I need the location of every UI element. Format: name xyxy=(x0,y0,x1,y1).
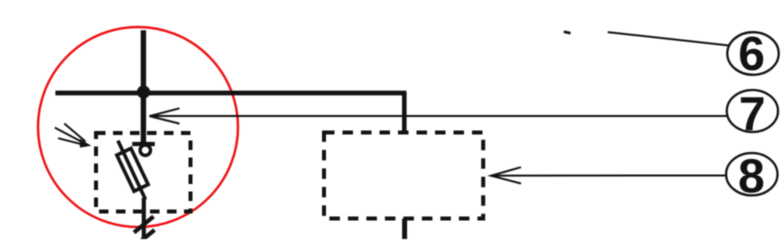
dashed box (fuse-switch unit) xyxy=(96,133,191,212)
leader line to callout 8 xyxy=(491,175,727,177)
wire: below fuse-switch xyxy=(142,198,146,240)
leader line to callout 7 xyxy=(150,115,728,117)
callout bubble 8 xyxy=(726,153,777,195)
fuse-switch: blade xyxy=(118,141,146,200)
junction node xyxy=(137,85,150,98)
label 7 xyxy=(741,97,764,130)
open arrowhead pointing at junction (callout 7) xyxy=(150,108,180,123)
leader line to callout 6 xyxy=(608,32,729,45)
callout bubble 7 xyxy=(727,90,778,132)
callout bubble 6 xyxy=(727,32,778,75)
fuse-switch: fuse body xyxy=(117,148,148,191)
leader line to callout 6 (broken segment) xyxy=(564,32,571,34)
wire: stub below box 8 xyxy=(402,219,407,240)
red highlight circle xyxy=(38,27,238,227)
label 8 xyxy=(740,159,764,193)
wire: incoming vertical feeder xyxy=(141,30,146,145)
open arrowhead pointing at box 8 xyxy=(491,167,521,183)
label 6 xyxy=(740,36,763,70)
wire: drop from bus into box 8 xyxy=(402,92,407,135)
break slash 1 on lower wire xyxy=(134,217,154,233)
fuse-switch: contact circle xyxy=(140,145,150,155)
dashed box (device 8) xyxy=(324,133,483,219)
break slash 2 on lower wire xyxy=(137,230,155,240)
bus wire horizontal xyxy=(55,91,406,96)
fuse-switch: top contact bar xyxy=(132,142,155,146)
pointer arrow (double shaft) at fuse box corner xyxy=(55,124,92,148)
